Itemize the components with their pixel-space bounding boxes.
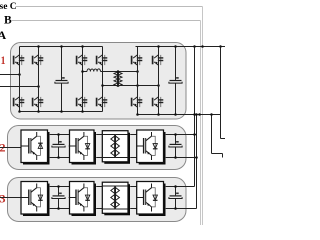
transformer T cell2 [114, 135, 116, 157]
wire top c cell2 [130, 134, 137, 136]
cell1 input wire lower [0, 86, 39, 88]
phase C line [16, 6, 203, 8]
wire top c cell3 [130, 186, 137, 188]
svg-text:1: 1 [1, 54, 6, 67]
node cap1 bottom cell3 [57, 207, 60, 210]
rectifier box cell2 [23, 132, 50, 165]
node leg1 bottom [18, 110, 21, 113]
transistor module S1 cell2 [22, 132, 43, 160]
svg-text:3: 3 [0, 192, 6, 206]
wire DAB upper [83, 71, 88, 73]
node C1 bottom [60, 110, 63, 113]
transistor Q7 [97, 55, 108, 65]
transistor module S2 cell3 [69, 184, 90, 212]
node bus cell2 bottom [195, 156, 198, 159]
transformer T1 [117, 71, 119, 87]
node leg3 top [81, 45, 84, 48]
node leg5 lower crossing [136, 84, 139, 87]
transistor Q5 [77, 55, 88, 65]
wire bot b cell3 [96, 208, 102, 210]
node cell1 leg2 mid [37, 85, 40, 88]
transistor Q1 [14, 55, 25, 65]
node leg2 bottom [37, 110, 40, 113]
converter cell 3 block [8, 178, 187, 222]
wire bot out cell2 [166, 157, 197, 159]
transformer T cell3 [114, 187, 116, 209]
transistor Q9 [132, 55, 143, 65]
wire top out cell2 [166, 134, 197, 136]
transistor module S3 cell2 [136, 132, 157, 160]
transformer box cell3 [104, 184, 130, 215]
cell1 DC- rail left [20, 111, 103, 113]
node cell1 leg1 mid [18, 73, 21, 76]
node leg3 bottom [81, 110, 84, 113]
node bus6 on dc- [210, 113, 213, 116]
bridge leg wire x=82.5 [82, 47, 84, 112]
transistor Q3 [33, 55, 44, 65]
wire bot a cell3 [50, 208, 70, 210]
node bus2 top [201, 45, 204, 48]
node cap1 top cell2 [57, 133, 60, 136]
bridge leg wire x=19.5 [19, 47, 21, 112]
transformer box cell2 [104, 133, 130, 164]
wire top b cell3 [96, 186, 102, 188]
svg-text:B: B [4, 15, 12, 27]
node bus1 on dc- [193, 113, 196, 116]
wire bot out cell3 [166, 208, 197, 210]
node leg3 mid [81, 70, 84, 73]
cell1 DC- rail right [138, 114, 221, 116]
node cap2 bottom cell2 [174, 156, 177, 159]
wire top out cell3 [166, 186, 195, 188]
output capacitor C2 [175, 47, 177, 81]
bus wire x=220.5 [220, 47, 222, 139]
node leg4 mid [101, 84, 104, 87]
transistor module S2 cell2 [69, 132, 90, 160]
transistor module S1 cell3 [22, 184, 43, 212]
cell1 DC+ rail right [136, 46, 226, 48]
wire bot c cell3 [130, 208, 137, 210]
output capacitor cell3 [175, 187, 177, 196]
transistor Q12 [153, 97, 164, 107]
cell2 input wire [0, 147, 21, 149]
node bus5 on dc- [198, 113, 201, 116]
bus wire x=196.5 [196, 115, 198, 209]
node cap2 top cell3 [174, 185, 177, 188]
output box cell2 [139, 132, 166, 165]
node C2 bottom [174, 113, 177, 116]
node cap1 top cell3 [57, 185, 60, 188]
bus wire x=211.5 [211, 115, 213, 154]
wire bot b cell2 [96, 157, 102, 159]
svg-text:se C: se C [0, 2, 17, 12]
inductor L1 [87, 69, 101, 72]
inverter box cell3 [72, 184, 97, 217]
node leg6 top [157, 45, 160, 48]
transistor Q10 [132, 97, 143, 107]
rectifier box cell3 [23, 184, 50, 217]
dc-link capacitor cell2 [58, 135, 60, 144]
wire bot c cell2 [130, 157, 137, 159]
wire secondary lower [118, 85, 159, 87]
output capacitor cell2 [175, 135, 177, 144]
transistor module S3 cell3 [136, 184, 157, 212]
node leg2 top [37, 45, 40, 48]
node leg5 bottom [136, 113, 139, 116]
wire DAB lower [103, 85, 119, 87]
dc-link capacitor cell3 [58, 187, 60, 196]
converter cell 1 block [11, 43, 187, 120]
node bus3 top [219, 45, 222, 48]
wire secondary upper [118, 71, 138, 73]
transistor Q11 [153, 55, 164, 65]
wire bot a cell2 [50, 157, 70, 159]
node cap2 bottom cell3 [174, 207, 177, 210]
cell3 input wire [0, 197, 21, 199]
node leg6 bottom [157, 113, 160, 116]
node C2 top [174, 45, 177, 48]
cell1 DC+ rail left [20, 46, 103, 48]
inverter box cell2 [72, 132, 97, 165]
transistor Q2 [14, 97, 25, 107]
transistor Q6 [77, 97, 88, 107]
wire top b cell2 [96, 134, 102, 136]
node cap2 top cell2 [174, 133, 177, 136]
wire top a cell3 [50, 186, 70, 188]
bridge leg wire x=38.5 [38, 47, 40, 112]
bridge leg wire x=137.5 [137, 47, 139, 115]
converter cell 2 block [8, 126, 187, 170]
node bus1 top [193, 45, 196, 48]
svg-text:A: A [0, 28, 7, 42]
node leg6 mid [157, 84, 160, 87]
transistor Q8 [97, 97, 108, 107]
output box cell3 [139, 184, 166, 217]
node leg5 mid [136, 70, 139, 73]
bridge leg wire x=102.5 [102, 47, 104, 112]
cell1 input wire upper [0, 74, 20, 76]
bus wire x=194.5 [194, 47, 196, 187]
wire top a cell2 [50, 134, 70, 136]
transistor Q4 [33, 97, 44, 107]
node cap1 bottom cell2 [57, 156, 60, 159]
bridge leg wire x=158.5 [158, 47, 160, 115]
node bus4 on dc- [195, 113, 198, 116]
phase B line [11, 20, 201, 22]
node bus cell2 top [193, 133, 196, 136]
node C1 top [60, 45, 63, 48]
dc-link capacitor C1 [61, 47, 63, 81]
